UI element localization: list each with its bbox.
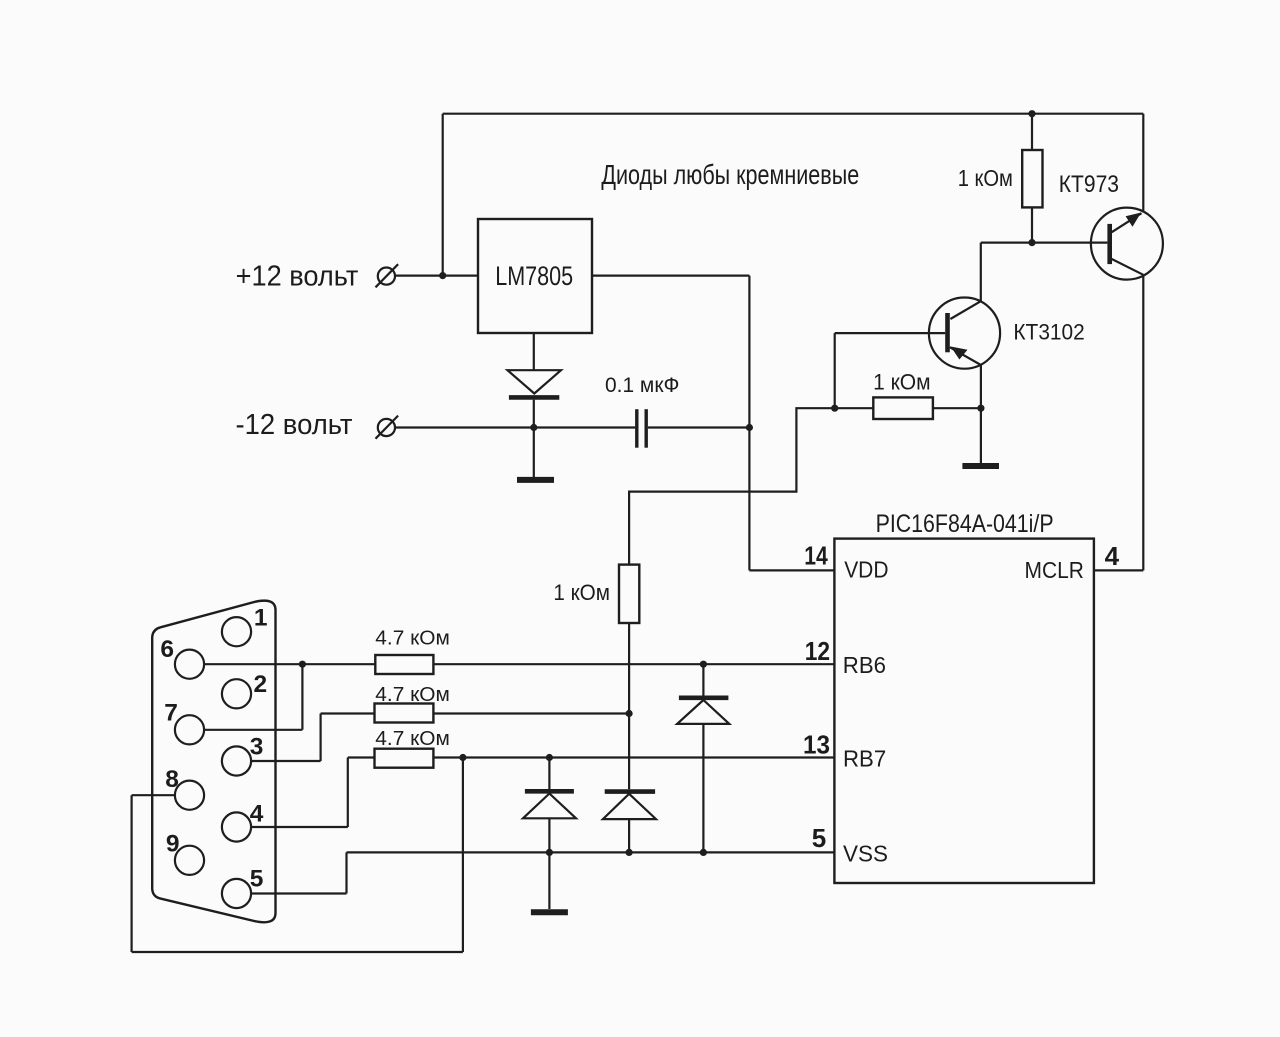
svg-text:КТ973: КТ973 (1059, 171, 1119, 198)
wire: Q2 collector riser (980, 243, 982, 302)
svg-text:VSS: VSS (843, 840, 888, 866)
node: junction RB7 / pin8 riser (459, 754, 466, 761)
terminal: -12 input circle (378, 419, 395, 436)
diode D1 lead to -12 line (533, 400, 535, 428)
diode D3 cathode bar (605, 789, 655, 794)
capacitor C1 right plate (645, 409, 648, 448)
wire: top rail (443, 113, 1144, 115)
svg-text:КТ3102: КТ3102 (1013, 320, 1084, 345)
transistor Q1 emitter arrow (1126, 213, 1142, 227)
diode D4 lead to VSS (702, 724, 704, 853)
terminal: +12 input slash (376, 264, 399, 287)
diode D1 lead from LM7805 (533, 333, 535, 370)
transistor Q1 collector line (1111, 258, 1144, 274)
node: junction top rail / R1 (1028, 110, 1035, 117)
diode D1 cathode bar (509, 395, 559, 400)
resistor R1 lead bottom (1031, 207, 1033, 242)
wire: VSS line (347, 851, 835, 853)
resistor R1 1 кОм lead top (1031, 114, 1033, 150)
wire: R2 route left and down to R3 (629, 408, 835, 564)
regulator U1 LM7805 box (478, 219, 592, 333)
svg-text:5: 5 (812, 823, 826, 853)
wire: pin6 to R4 (204, 663, 375, 665)
node: junction D1 / -12 line (530, 424, 537, 431)
svg-text:1 кОм: 1 кОм (958, 165, 1013, 191)
svg-text:LM7805: LM7805 (495, 261, 573, 291)
diode D2 triangle (523, 794, 576, 819)
svg-text:6: 6 (160, 636, 174, 663)
node: junction pin6 line / pin7 tap (299, 661, 306, 668)
svg-text:13: 13 (803, 730, 830, 760)
svg-text:2: 2 (254, 671, 268, 698)
wire: R5 to R3 junction (433, 712, 629, 714)
wire: pin8 left (132, 794, 175, 796)
wire: +12 riser to top rail (442, 114, 444, 276)
svg-text:3: 3 (250, 734, 264, 761)
wire: +12 input to LM7805 (395, 275, 478, 277)
transistor Q2 base bar (945, 313, 950, 352)
connector pin circle 1 (222, 617, 251, 646)
wire: KT3102 collector to KT973 base (981, 242, 1108, 244)
wire: MCLR pin (1094, 569, 1143, 571)
diode D1 triangle (508, 370, 562, 393)
diode D4 triangle (677, 700, 729, 724)
svg-text:RB6: RB6 (843, 652, 886, 678)
diode D2 cathode bar (525, 789, 574, 794)
svg-text:RB7: RB7 (843, 746, 886, 772)
svg-text:12: 12 (805, 636, 830, 666)
wire: D1 junction to ground (533, 428, 535, 478)
svg-text:MCLR: MCLR (1025, 557, 1084, 583)
diode D4 cathode bar (679, 695, 729, 700)
terminal: -12 input slash (376, 416, 399, 439)
diode D3 lead to VSS (628, 819, 630, 852)
connector pin circle 2 (222, 679, 251, 708)
capacitor C1 left plate (635, 409, 638, 448)
svg-text:0.1 мкФ: 0.1 мкФ (605, 373, 679, 397)
svg-text:1: 1 (254, 605, 268, 632)
diode D4 lead from RB6 (702, 664, 704, 695)
transistor Q1 base bar (1107, 224, 1112, 264)
svg-text:PIC16F84A-041i/P: PIC16F84A-041i/P (876, 510, 1054, 538)
wire: to VDD pin (749, 569, 834, 571)
wire: Q2 base drop to R2 (834, 333, 836, 408)
svg-text:7: 7 (164, 700, 178, 727)
resistor R6 body (375, 749, 434, 768)
node: junction RB6 line / D4 (700, 661, 707, 668)
terminal: +12 input circle (378, 268, 395, 285)
node: junction R1 / KT973 base line (1028, 239, 1035, 246)
node: junction +12 / riser (439, 272, 446, 279)
svg-text:Диоды любы кремниевые: Диоды любы кремниевые (601, 159, 859, 190)
svg-text:8: 8 (165, 766, 179, 793)
svg-text:-12 вольт: -12 вольт (236, 409, 353, 441)
wire: pin4 to R6 (251, 758, 374, 828)
wire: emitter junction to ground (980, 408, 982, 463)
svg-text:4.7 кОм: 4.7 кОм (375, 626, 450, 649)
wire: VSS junction to ground (548, 852, 550, 909)
node: junction output / -12 cap line (746, 424, 753, 431)
wire: -12 line to capacitor (395, 426, 635, 428)
resistor R2 lead right (933, 407, 981, 409)
svg-text:+12 вольт: +12 вольт (236, 261, 359, 293)
wire: Q2 emitter down (980, 365, 982, 408)
node: junction R3 / R5 line (626, 710, 633, 717)
transistor Q1 KT973 circle (1091, 208, 1163, 280)
node: junction emitter / R2 (977, 405, 984, 412)
svg-text:4.7 кОм: 4.7 кОм (375, 727, 450, 750)
wire: Q2 base line (835, 332, 946, 334)
transistor Q2 collector line (950, 301, 980, 319)
wire: top rail drop to KT973 emitter (1142, 114, 1144, 212)
connector X1 DB9 outline (152, 601, 275, 923)
diode D3 lead from R5 junction (628, 714, 630, 790)
transistor Q2 emitter arrow (951, 347, 968, 360)
svg-text:1 кОм: 1 кОм (553, 580, 610, 605)
wire: pin3 to R5 (251, 714, 374, 762)
ground: below D1 (517, 477, 554, 483)
connector pin circle 6 (175, 650, 204, 679)
wire: pin8 drop (131, 795, 133, 952)
node: junction VSS / D3 (626, 849, 633, 856)
svg-text:4: 4 (250, 800, 264, 827)
resistor R3 1 кОм vertical body (619, 565, 639, 623)
transistor Q2 emitter line (950, 347, 981, 365)
node: junction VSS / D2 (546, 849, 553, 856)
wire: pin5 to VSS route (251, 852, 346, 893)
diode D2 lead from RB7 (548, 758, 550, 790)
connector pin circle 8 (175, 781, 204, 810)
wire: pin7 tap riser (301, 664, 303, 730)
connector pin circle 3 (222, 746, 251, 775)
transistor Q1 emitter line (1112, 213, 1142, 232)
svg-text:1 кОм: 1 кОм (873, 369, 931, 394)
ground: below D2 (531, 909, 568, 915)
svg-text:5: 5 (250, 865, 264, 892)
resistor R2 lead left (835, 407, 874, 409)
svg-text:VDD: VDD (844, 557, 888, 583)
ground: below Q2 emitter (962, 463, 999, 469)
resistor R4 body (375, 655, 433, 674)
node: junction VSS / D4 (700, 849, 707, 856)
connector pin circle 4 (222, 812, 251, 841)
connector pin circle 5 (222, 879, 251, 908)
transistor Q2 KT3102 circle (929, 298, 1000, 369)
node: junction base drop / R2 left (831, 405, 838, 412)
connector pin circle 7 (175, 715, 204, 744)
resistor R5 body (375, 704, 434, 723)
wire: pin7 horizontal (204, 729, 302, 731)
resistor R3 lead bottom (628, 623, 630, 714)
node: junction RB7 / D2 (546, 754, 553, 761)
wire: capacitor to output drop (648, 426, 749, 428)
wire: R4 to RB6 (433, 663, 834, 665)
IC U2 PIC16F84A box (834, 539, 1094, 883)
wire: KT973 collector down to MCLR (1142, 275, 1144, 571)
connector pin circle 9 (175, 846, 204, 875)
svg-text:9: 9 (166, 831, 180, 858)
resistor R2 body (873, 397, 933, 419)
wire: R6 to RB7 (433, 756, 834, 758)
diode D3 triangle (603, 794, 656, 819)
wire: pin8 bottom run (132, 951, 463, 953)
diode D2 lead to VSS (548, 818, 550, 852)
svg-text:14: 14 (804, 541, 828, 571)
resistor R1 1 кОм body (1022, 150, 1042, 207)
wire: pin8 riser to RB7 (462, 758, 464, 953)
wire: output drop to VDD level (748, 276, 750, 571)
wire: LM7805 output right (592, 275, 749, 277)
svg-text:4: 4 (1105, 541, 1120, 571)
